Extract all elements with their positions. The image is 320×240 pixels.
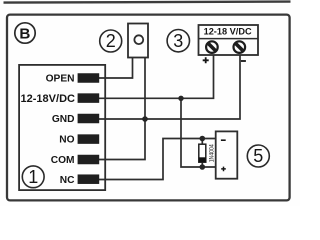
svg-text:12-18V/DC: 12-18V/DC <box>21 93 76 105</box>
terminal OPEN <box>46 73 100 84</box>
wire NC to lock - <box>99 139 216 180</box>
svg-text:2: 2 <box>106 31 116 51</box>
svg-text:3: 3 <box>173 31 183 51</box>
node junction diode bottom <box>200 164 206 170</box>
top partial frame line <box>4 0 291 3</box>
svg-text:COM: COM <box>51 155 75 166</box>
svg-text:NC: NC <box>60 175 75 186</box>
node junction at GND <box>142 116 148 122</box>
svg-text:B: B <box>19 25 30 42</box>
label 1 <box>22 166 44 188</box>
svg-text:NO: NO <box>59 135 74 146</box>
wire node to lock + <box>181 98 216 167</box>
exit button S1 <box>128 24 148 58</box>
minus sign <box>241 60 246 62</box>
label 2 <box>100 30 122 52</box>
node junction diode top <box>200 136 206 142</box>
svg-text:1: 1 <box>28 167 38 187</box>
node junction at V+ <box>178 96 183 101</box>
electric lock Y1 <box>216 131 238 178</box>
power supply PS1 <box>199 25 259 55</box>
terminal NC <box>60 174 99 185</box>
svg-text:5: 5 <box>253 146 263 166</box>
wire OPEN to button <box>99 58 133 79</box>
svg-text:OPEN: OPEN <box>46 74 75 85</box>
wire diode branch <box>201 139 203 168</box>
border frame <box>7 15 290 201</box>
wire GND to PSU - <box>99 55 240 119</box>
svg-text:GND: GND <box>52 114 75 125</box>
label B <box>15 23 35 43</box>
terminal NO <box>59 134 99 145</box>
wire button pin2 to COM (through GND node) <box>99 58 145 160</box>
label 3 <box>167 30 189 52</box>
controller box U1 <box>19 65 105 190</box>
svg-text:1N4004: 1N4004 <box>208 144 215 162</box>
screw terminal + <box>206 41 218 53</box>
diode D1 1N4004 <box>199 144 216 162</box>
wire 12-18V/DC to PSU + <box>99 55 214 98</box>
plus sign <box>203 57 209 63</box>
svg-text:12-18 V/DC: 12-18 V/DC <box>204 25 252 36</box>
terminal COM <box>51 155 99 166</box>
terminal 12-18V/DC <box>21 93 100 105</box>
terminal GND <box>52 114 99 125</box>
screw terminal - <box>234 41 246 53</box>
label 5 <box>247 145 269 167</box>
